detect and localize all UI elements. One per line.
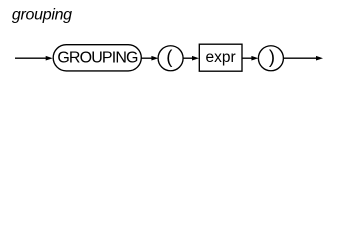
arrowhead into ) — [251, 56, 258, 61]
svg-text:): ) — [269, 46, 275, 67]
terminal GROUPING pill — [53, 45, 141, 71]
wire expr to rparen — [242, 57, 253, 59]
wire start — [15, 57, 47, 59]
arrowhead into ( — [151, 56, 158, 61]
arrowhead end — [316, 56, 323, 61]
arrowhead into expr — [192, 56, 199, 61]
svg-text:GROUPING: GROUPING — [57, 50, 138, 67]
wire lparen to expr — [183, 57, 194, 59]
wire pill to lparen — [141, 57, 153, 59]
terminal ( circle — [158, 46, 183, 71]
svg-text:grouping: grouping — [12, 6, 72, 23]
terminal ) circle — [258, 46, 283, 71]
arrowhead into GROUPING — [46, 56, 53, 61]
nonterminal expr box — [199, 44, 242, 71]
wire end — [283, 57, 318, 59]
svg-text:(: ( — [166, 46, 173, 67]
svg-text:expr: expr — [206, 49, 236, 66]
